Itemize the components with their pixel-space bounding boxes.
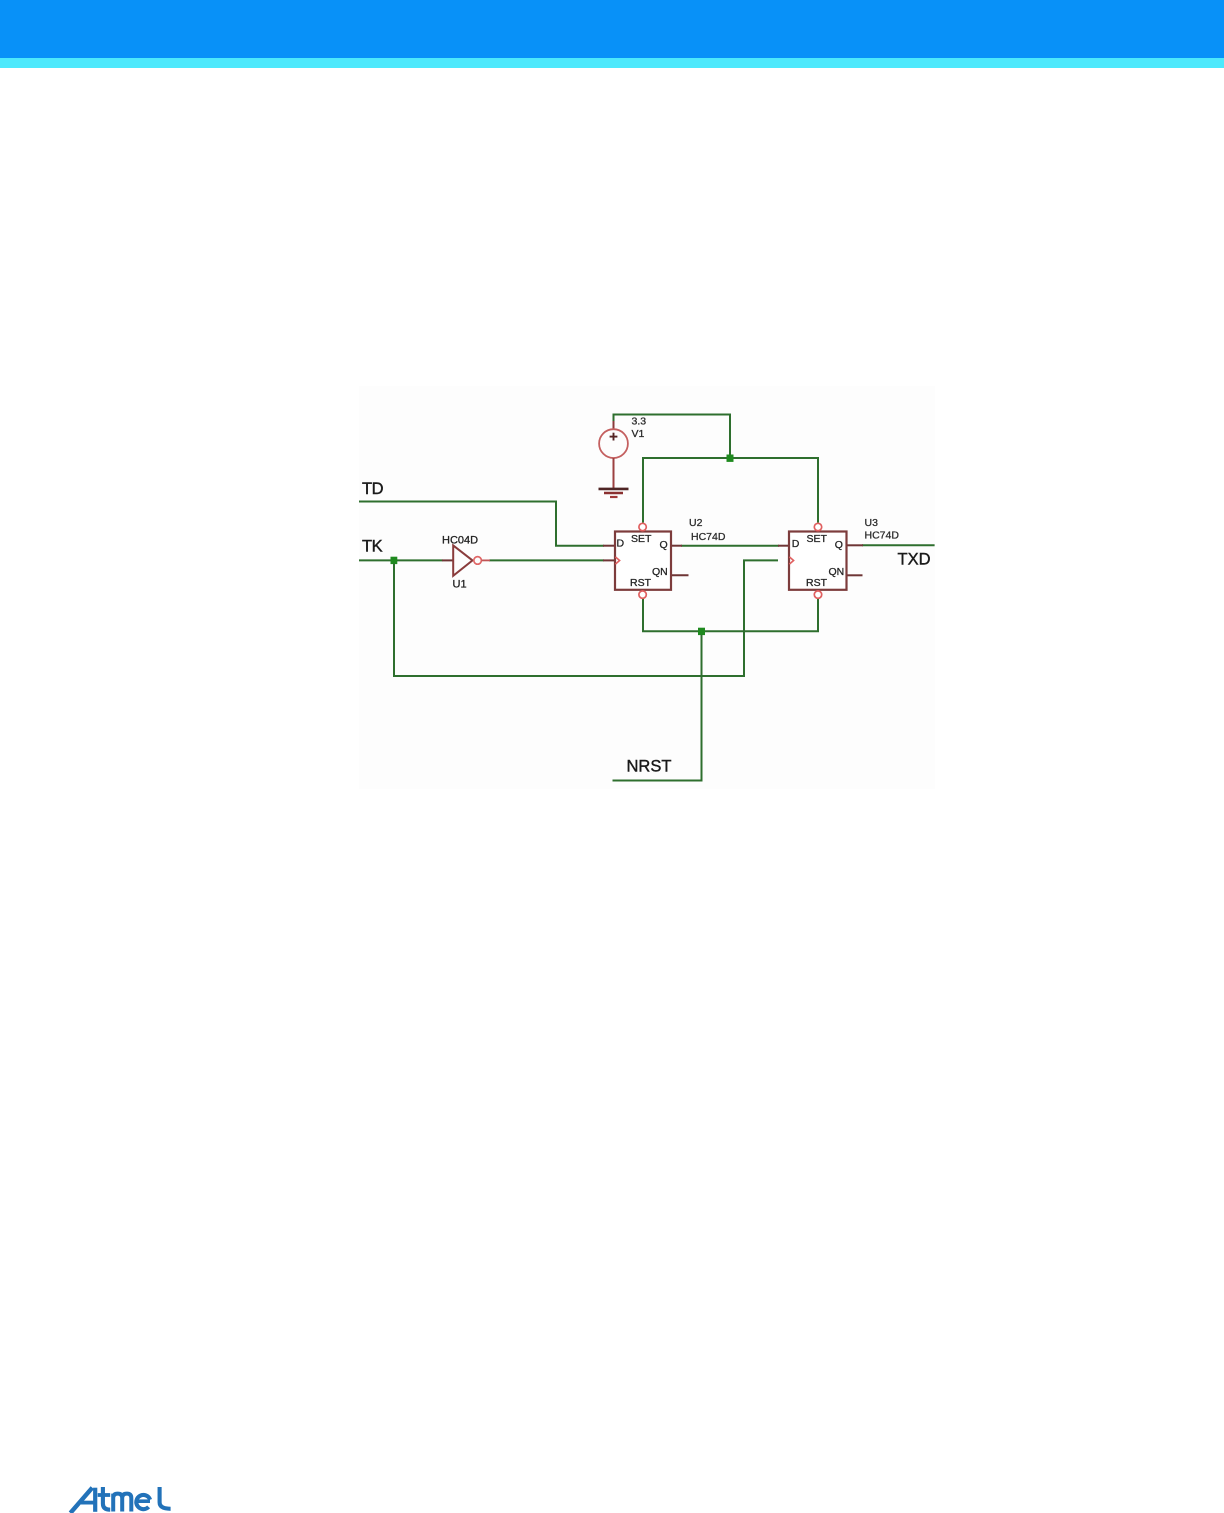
U2 pin stub QN: [672, 574, 689, 576]
node junction TK: [391, 557, 398, 564]
svg-text:TXD: TXD: [898, 551, 931, 569]
wire RST rail: [643, 598, 818, 631]
flip-flop U2: [615, 523, 671, 598]
voltage source V1: [599, 421, 628, 458]
svg-text:3.3: 3.3: [632, 416, 647, 428]
svg-text:RST: RST: [630, 577, 652, 589]
U2 pin stub D: [603, 545, 614, 547]
svg-text:Q: Q: [835, 539, 843, 551]
svg-text:HC74D: HC74D: [691, 531, 726, 543]
svg-text:U2: U2: [689, 517, 703, 529]
node junction VCC rail: [727, 455, 734, 462]
svg-text:RST: RST: [806, 577, 828, 589]
wire U2 Q to U3 D: [681, 545, 779, 547]
wire TK net: [359, 559, 443, 561]
svg-text:V1: V1: [632, 428, 645, 440]
svg-text:SET: SET: [631, 533, 652, 545]
wire U1 output to U2 clock: [489, 559, 604, 561]
schematic background: [359, 386, 935, 789]
U2 pin stub CLK: [603, 559, 614, 561]
svg-text:Q: Q: [660, 539, 668, 551]
svg-text:D: D: [792, 538, 800, 550]
U3 pin stub QN: [848, 574, 863, 576]
wire TD net: [359, 502, 604, 546]
header cyan strip: [0, 58, 1224, 68]
svg-text:QN: QN: [652, 566, 668, 578]
svg-text:TD: TD: [362, 480, 384, 498]
svg-text:U1: U1: [453, 579, 467, 591]
U3 pin stub D: [778, 545, 788, 547]
svg-text:HC04D: HC04D: [442, 535, 478, 547]
svg-text:D: D: [617, 537, 625, 549]
node junction RST: [698, 628, 705, 635]
wire SET rail: [643, 458, 818, 523]
ground: [599, 458, 629, 497]
svg-text:TK: TK: [362, 538, 383, 556]
wire TK feedback to U3 clock: [394, 560, 778, 676]
Atmel logo: [70, 1487, 170, 1513]
wire NRST net: [613, 635, 702, 781]
U2 pin stub Q: [672, 545, 682, 547]
U3 pin stub Q: [848, 544, 864, 546]
svg-text:SET: SET: [807, 533, 828, 545]
inverter U1: [442, 545, 490, 575]
svg-text:U3: U3: [865, 517, 879, 529]
wire V1 top to SET rail: [614, 415, 731, 459]
header bar: [0, 0, 1224, 58]
svg-text:HC74D: HC74D: [865, 530, 900, 542]
flip-flop U3: [789, 523, 847, 598]
wire U3 Q to TXD: [862, 544, 935, 546]
svg-text:QN: QN: [829, 566, 845, 578]
svg-text:NRST: NRST: [627, 758, 672, 776]
